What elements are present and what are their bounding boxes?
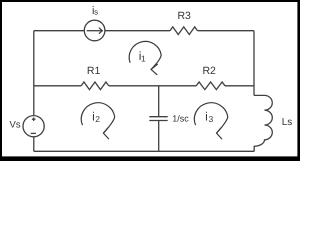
svg-text:R2: R2 — [202, 65, 216, 77]
svg-text:3: 3 — [209, 114, 214, 124]
svg-text:1: 1 — [141, 53, 146, 63]
svg-text:Vs: Vs — [10, 119, 21, 130]
svg-text:1/sc: 1/sc — [172, 114, 189, 124]
svg-text:2: 2 — [95, 114, 100, 124]
svg-text:R3: R3 — [177, 10, 191, 22]
svg-text:i: i — [205, 110, 208, 124]
svg-text:s: s — [94, 8, 98, 17]
svg-text:R1: R1 — [87, 65, 101, 77]
svg-text:Ls: Ls — [282, 117, 293, 128]
